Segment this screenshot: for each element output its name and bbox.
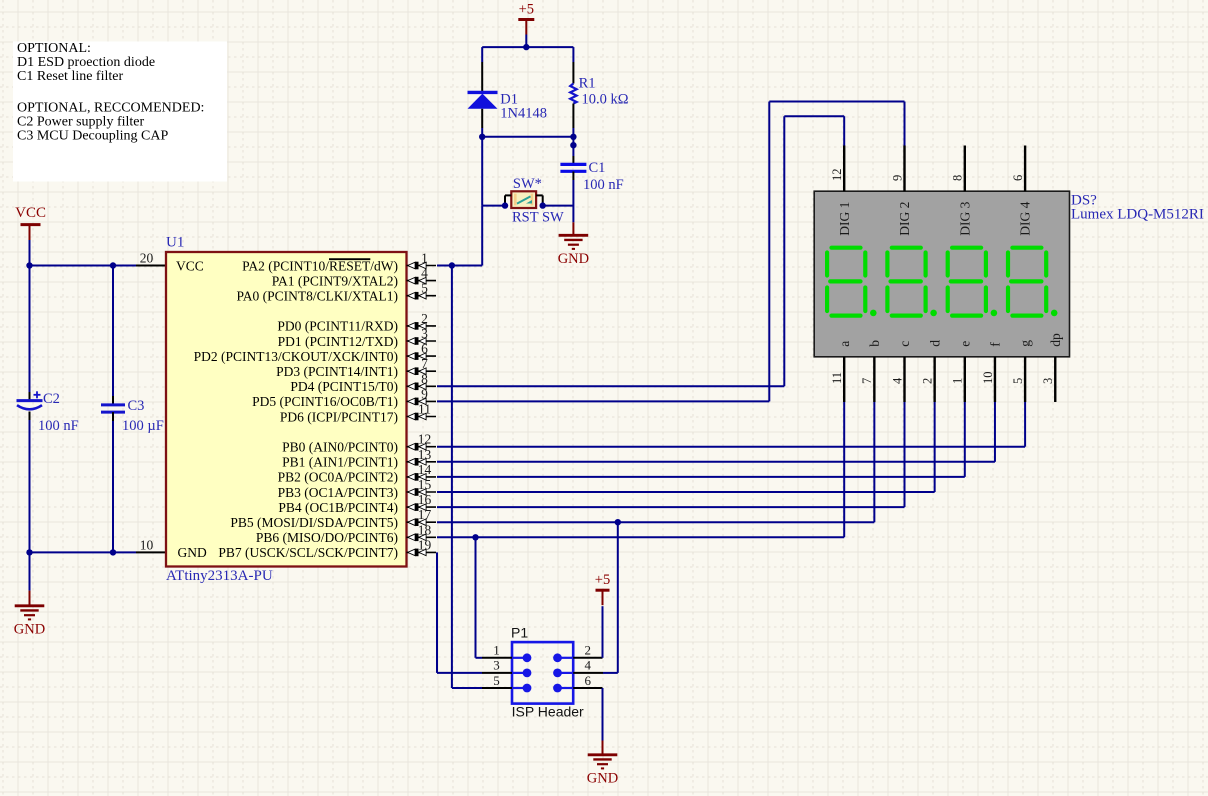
- svg-text:PD3 (PCINT14/INT1): PD3 (PCINT14/INT1): [276, 364, 398, 379]
- svg-text:16: 16: [418, 492, 432, 507]
- svg-text:1: 1: [421, 251, 428, 266]
- svg-text:4: 4: [584, 658, 591, 673]
- svg-text:1: 1: [493, 643, 500, 658]
- svg-text:3: 3: [421, 326, 428, 341]
- svg-text:PD6 (ICPI/PCINT17): PD6 (ICPI/PCINT17): [280, 409, 398, 424]
- svg-text:VCC: VCC: [15, 205, 46, 221]
- svg-text:RST SW: RST SW: [512, 209, 564, 225]
- svg-text:1N4148: 1N4148: [500, 105, 547, 121]
- svg-text:PB2 (OC0A/PCINT2): PB2 (OC0A/PCINT2): [278, 470, 398, 485]
- svg-text:15: 15: [418, 477, 432, 492]
- svg-text:6: 6: [1011, 175, 1025, 181]
- svg-text:100 µF: 100 µF: [122, 418, 164, 434]
- svg-text:d: d: [927, 340, 942, 347]
- svg-text:13: 13: [418, 447, 432, 462]
- svg-text:18: 18: [418, 522, 432, 537]
- svg-text:5: 5: [493, 673, 500, 688]
- svg-text:3: 3: [1041, 378, 1055, 384]
- svg-text:f: f: [988, 342, 1003, 347]
- svg-text:C2 Power supply filter: C2 Power supply filter: [17, 115, 144, 130]
- svg-text:c: c: [897, 341, 912, 347]
- svg-text:C1: C1: [589, 160, 606, 176]
- svg-text:PB7 (USCK/SCL/SCK/PCINT7): PB7 (USCK/SCL/SCK/PCINT7): [218, 545, 398, 560]
- svg-text:12: 12: [830, 169, 844, 182]
- svg-text:2: 2: [421, 311, 428, 326]
- svg-text:GND: GND: [587, 770, 618, 786]
- svg-text:DIG 2: DIG 2: [897, 202, 912, 236]
- svg-text:DIG 4: DIG 4: [1018, 201, 1033, 235]
- svg-text:9: 9: [421, 386, 428, 401]
- svg-text:ISP Header: ISP Header: [512, 704, 584, 720]
- svg-text:100 nF: 100 nF: [38, 418, 79, 434]
- svg-text:12: 12: [418, 432, 432, 447]
- svg-text:Lumex LDQ-M512RI: Lumex LDQ-M512RI: [1071, 207, 1204, 223]
- svg-text:9: 9: [890, 175, 904, 181]
- svg-text:5: 5: [421, 281, 428, 296]
- svg-text:+5: +5: [595, 572, 610, 588]
- svg-text:b: b: [867, 340, 882, 347]
- svg-text:PD1 (PCINT12/TXD): PD1 (PCINT12/TXD): [278, 334, 398, 349]
- svg-text:+5: +5: [519, 2, 534, 18]
- svg-text:DIG 3: DIG 3: [957, 201, 972, 235]
- svg-text:20: 20: [140, 251, 154, 266]
- svg-text:PD2 (PCINT13/CKOUT/XCK/INT0): PD2 (PCINT13/CKOUT/XCK/INT0): [194, 349, 398, 364]
- svg-text:5: 5: [1011, 378, 1025, 384]
- svg-text:g: g: [1018, 340, 1033, 347]
- svg-text:VCC: VCC: [176, 258, 204, 273]
- svg-text:14: 14: [418, 462, 432, 477]
- svg-text:GND: GND: [14, 621, 45, 637]
- svg-text:7: 7: [421, 356, 428, 371]
- svg-text:GND: GND: [558, 251, 589, 267]
- svg-text:P1: P1: [511, 625, 528, 641]
- svg-text:PA0 (PCINT8/CLKI/XTAL1): PA0 (PCINT8/CLKI/XTAL1): [236, 289, 398, 304]
- svg-text:e: e: [957, 341, 972, 347]
- svg-text:R1: R1: [579, 76, 596, 92]
- svg-text:6: 6: [584, 673, 591, 688]
- svg-text:3: 3: [493, 658, 500, 673]
- svg-text:U1: U1: [166, 234, 184, 250]
- svg-text:PB4 (OC1B/PCINT4): PB4 (OC1B/PCINT4): [278, 500, 398, 515]
- svg-text:D1 ESD proection diode: D1 ESD proection diode: [17, 55, 155, 70]
- svg-text:a: a: [837, 341, 852, 347]
- svg-text:PA2 (PCINT10/RESET/dW): PA2 (PCINT10/RESET/dW): [242, 258, 398, 273]
- svg-text:8: 8: [421, 371, 428, 386]
- svg-text:11: 11: [830, 372, 844, 384]
- svg-text:11: 11: [418, 402, 431, 417]
- svg-text:19: 19: [418, 537, 432, 552]
- svg-text:ATtiny2313A-PU: ATtiny2313A-PU: [166, 568, 273, 584]
- svg-text:PB6 (MISO/DO/PCINT6): PB6 (MISO/DO/PCINT6): [256, 530, 398, 545]
- svg-text:PD5 (PCINT16/OC0B/T1): PD5 (PCINT16/OC0B/T1): [252, 394, 398, 409]
- svg-text:C1 Reset line filter: C1 Reset line filter: [17, 69, 123, 84]
- svg-text:2: 2: [920, 378, 934, 384]
- svg-text:PD4 (PCINT15/T0): PD4 (PCINT15/T0): [290, 379, 398, 394]
- svg-text:PB5 (MOSI/DI/SDA/PCINT5): PB5 (MOSI/DI/SDA/PCINT5): [230, 515, 398, 530]
- svg-text:OPTIONAL, RECCOMENDED:: OPTIONAL, RECCOMENDED:: [17, 101, 204, 116]
- svg-text:4: 4: [421, 266, 428, 281]
- svg-text:10: 10: [981, 372, 995, 385]
- svg-text:4: 4: [890, 377, 904, 384]
- svg-text:SW*: SW*: [513, 176, 542, 192]
- svg-text:1: 1: [951, 378, 965, 384]
- svg-text:2: 2: [584, 643, 591, 658]
- svg-text:17: 17: [418, 507, 432, 522]
- svg-text:100 nF: 100 nF: [583, 177, 624, 193]
- svg-text:OPTIONAL:: OPTIONAL:: [17, 41, 91, 56]
- svg-text:DIG 1: DIG 1: [837, 202, 852, 236]
- svg-text:PB1 (AIN1/PCINT1): PB1 (AIN1/PCINT1): [282, 455, 398, 470]
- svg-text:PB0 (AIN0/PCINT0): PB0 (AIN0/PCINT0): [282, 440, 398, 455]
- svg-text:8: 8: [951, 175, 965, 181]
- svg-text:10.0 kΩ: 10.0 kΩ: [582, 92, 629, 108]
- svg-text:PD0 (PCINT11/RXD): PD0 (PCINT11/RXD): [277, 319, 398, 334]
- svg-text:GND: GND: [178, 545, 207, 560]
- svg-text:C3: C3: [128, 398, 145, 414]
- svg-text:6: 6: [421, 341, 428, 356]
- svg-text:dp: dp: [1048, 333, 1063, 347]
- svg-text:PB3 (OC1A/PCINT3): PB3 (OC1A/PCINT3): [278, 485, 398, 500]
- svg-text:C3 MCU Decoupling CAP: C3 MCU Decoupling CAP: [17, 129, 169, 144]
- svg-text:7: 7: [860, 378, 874, 384]
- svg-text:PA1 (PCINT9/XTAL2): PA1 (PCINT9/XTAL2): [272, 273, 398, 288]
- svg-text:10: 10: [140, 537, 154, 552]
- svg-text:C2: C2: [43, 391, 60, 407]
